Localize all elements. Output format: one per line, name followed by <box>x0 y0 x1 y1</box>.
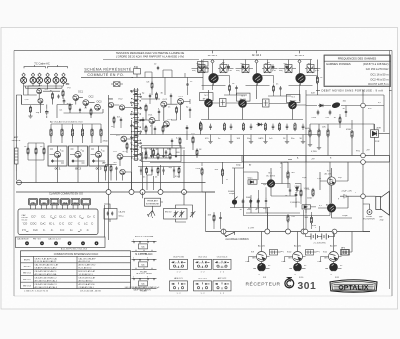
svg-text:5n: 5n <box>143 177 145 179</box>
resistor stage2-3 <box>273 84 275 92</box>
resistor supply column 2 <box>61 128 63 138</box>
svg-text:AT.GO.1.AST.OS.2: AT.GO.1.AST.OS.2 <box>79 264 97 267</box>
resistor AVC 150 <box>309 128 311 137</box>
svg-text:25µF: 25µF <box>302 177 307 179</box>
ground front-end <box>28 114 32 118</box>
transistor OC2 <box>75 151 81 157</box>
transistor BF 195 (stage 1) <box>209 73 219 83</box>
wire: extra fe links <box>28 86 103 118</box>
ground under IF row at x=287 <box>285 140 289 144</box>
svg-text:G.O: G.O <box>123 151 127 153</box>
svg-text:[5K]: [5K] <box>280 251 284 253</box>
capacitor left-bus 1 <box>115 166 117 171</box>
transistor left-bus <box>120 169 125 174</box>
resistor left-bus 1 <box>105 165 107 173</box>
capacitor stage2-3 <box>279 86 281 91</box>
junction battery left <box>303 229 308 234</box>
wire: stage 1 tick to frame <box>212 51 214 54</box>
ground AVC 2 <box>317 146 321 150</box>
resistor osc mod 1 <box>145 153 147 160</box>
svg-text:CC´: CC´ <box>68 221 73 225</box>
resistor supply column 4 <box>81 128 83 138</box>
transformer box for N 11 <box>342 250 350 256</box>
keyboard contact dot 3 <box>54 241 58 245</box>
wire: inter-stage output links <box>270 232 353 253</box>
earphone jack <box>367 210 372 215</box>
junction on bus E at x=267.3 <box>265 229 270 234</box>
extra marks in OC3 box <box>91 149 105 163</box>
resistor front-end 3 <box>69 103 71 111</box>
resistor AVC 10k <box>318 128 320 137</box>
svg-text:CB.2.AT.C.AT.OS.AV.C.2: CB.2.AT.C.AT.OS.AV.C.2 <box>35 277 58 280</box>
svg-text:OC3 57 à 87,5 m: OC3 57 à 87,5 m <box>368 82 389 86</box>
transistor N3 OC169 <box>239 100 247 108</box>
switch contact 5 <box>131 114 135 115</box>
switch contact 11 <box>131 148 135 149</box>
svg-text:OC1: OC1 <box>179 96 184 98</box>
box CV 470 <box>104 209 117 220</box>
band switch strip side dots <box>131 91 141 161</box>
resistor pre-bus 3 <box>43 147 45 156</box>
resistor front-end 2 <box>52 92 54 100</box>
transistor center OC1 <box>149 118 155 124</box>
trimmer capacitor diamond 4 <box>46 73 49 77</box>
ground under IF row at x=303 <box>301 140 305 144</box>
wire: supply drop 5 <box>91 124 93 129</box>
transistor center OC2 <box>119 105 124 110</box>
aju trimmer near title <box>134 67 141 78</box>
transistor center FO/GO <box>117 154 123 160</box>
svg-text:C.C: C.C <box>60 229 65 232</box>
wire: stage 2 tick to frame <box>256 51 258 54</box>
resistor c-extra 3 <box>145 125 147 133</box>
capacitor front-end 2 <box>57 94 59 98</box>
capacitor CV b <box>111 211 113 215</box>
wire: osc mod top rail <box>144 148 179 154</box>
svg-text:SAUF INDICATION: SAUF INDICATION <box>133 289 151 292</box>
resistor c-extra 6 <box>113 116 115 124</box>
wire: battery area <box>312 212 320 232</box>
svg-text:470K: 470K <box>196 168 201 170</box>
electrolytic capacitor 2.5uF output <box>340 194 352 198</box>
svg-text:P.O: P.O <box>116 135 120 137</box>
resistor fo-go 2 <box>157 167 159 175</box>
capacitor under title wire <box>186 82 188 87</box>
svg-text:R.1.3.10. AV.FO.CAD 12: R.1.3.10. AV.FO.CAD 12 <box>35 260 58 263</box>
wire: key 6 drop <box>104 205 106 237</box>
svg-text:GRI: GRI <box>252 258 256 260</box>
wire: bottom extra links <box>214 210 304 234</box>
ferrite rod coil <box>15 145 18 172</box>
wire: bus line A (chassis) <box>16 182 206 184</box>
wire: antenna to bus <box>15 143 17 181</box>
svg-text:301: 301 <box>298 281 317 292</box>
pinout diagram M.F.3 <box>132 279 157 289</box>
svg-text:10K: 10K <box>237 138 241 140</box>
svg-text:AOR: AOR <box>377 127 382 130</box>
svg-text:FM): FM) <box>236 70 240 72</box>
svg-text:EN OC3: EN OC3 <box>23 286 31 288</box>
wire: y162.5 link to right <box>150 162 242 164</box>
wire: bus drop right of keyboard <box>108 195 110 241</box>
svg-text:·2·G·O·: ·2·G·O· <box>199 267 206 269</box>
wire: jack link <box>363 204 370 210</box>
keyboard contact dot 1 <box>25 241 29 245</box>
band switch strip extra contacts <box>133 90 139 161</box>
svg-text:OA79: OA79 <box>258 137 264 140</box>
junction on bus E at x=223.5 <box>221 229 226 234</box>
diode AM detector <box>318 104 325 107</box>
wire: det extra <box>306 106 352 163</box>
svg-text:50n: 50n <box>247 138 250 140</box>
wire: bus line E (battery +) <box>206 231 371 233</box>
wire: AF path verticals <box>232 135 258 199</box>
svg-text:BO2.OC1.AT.O.AT: BO2.OC1.AT.O.AT <box>79 270 96 273</box>
transistor AF 114 (stage 2) <box>253 73 263 83</box>
wire: to speaker <box>352 196 376 210</box>
pinout box 6 inner x-marks <box>216 283 226 285</box>
svg-text:ℓC·L: ℓC·L <box>49 221 55 225</box>
svg-text:GRI: GRI <box>324 258 328 260</box>
svg-text:C‿C: C‿C <box>50 215 57 219</box>
transistor OC3 <box>95 151 101 157</box>
wire: prebus links <box>28 143 44 183</box>
diode box AOR/POR <box>371 130 379 138</box>
svg-text:47KΩ: 47KΩ <box>346 128 352 131</box>
capacitor af row 3 <box>265 198 267 203</box>
svg-text:AT.OC3.A.AT.3.56: AT.OC3.A.AT.3.56 <box>79 283 96 286</box>
svg-text:OC2 46 à 53 m: OC2 46 à 53 m <box>370 78 389 82</box>
wire: title wire drops <box>152 78 188 96</box>
pinout box 4 inner x-marks <box>173 283 183 285</box>
commutation table outer box <box>21 251 131 289</box>
switch contact 8 <box>138 131 142 132</box>
resistor driver bias <box>312 188 314 197</box>
svg-text:AT.C.AV.OC3.R.AT.CAL.3: AT.C.AV.OC3.R.AT.CAL.3 <box>35 286 58 289</box>
trimmer capacitor diamond 6 <box>62 73 65 77</box>
trimmer box with X under title <box>111 82 123 87</box>
resistor AVC 47k <box>327 128 329 137</box>
label box CB7 upper <box>198 62 209 67</box>
svg-text:CvC: CvC <box>40 221 46 225</box>
IF transformer right of stage 1 <box>220 65 227 73</box>
wire: OC 2 emitter to bus <box>77 166 79 183</box>
svg-text:AF 114 2: AF 114 2 <box>252 54 262 57</box>
resistor c-extra 1 <box>156 92 158 100</box>
variable capacitor outside EN GO <box>190 211 195 218</box>
rule under notes <box>103 58 199 60</box>
svg-text:ECOUTEUR: ECOUTEUR <box>363 219 375 221</box>
svg-text:OC3: OC3 <box>97 101 103 104</box>
svg-text:FO: FO <box>68 88 71 90</box>
wire: coil 3 stub <box>39 77 41 86</box>
svg-text:CL.C: CL.C <box>59 215 66 219</box>
svg-text:OC1 OC1.3: OC1 OC1.3 <box>217 257 228 259</box>
capacitor fo-go 2 <box>151 168 153 172</box>
resistor c-extra 4 <box>162 125 164 133</box>
svg-text:FM · GO: FM · GO <box>33 239 41 241</box>
capacitor in OC 1 <box>51 159 53 162</box>
svg-text:CC°: CC° <box>31 215 36 219</box>
junction: speaker feed <box>361 194 366 199</box>
svg-text:·C: ·C <box>77 221 80 225</box>
wire: N 11 leads <box>325 232 342 265</box>
wire: stage3 riser <box>312 60 318 96</box>
tuning capacitor section 6 <box>61 77 67 83</box>
svg-text:AC 132: AC 132 <box>325 172 333 175</box>
keyboard contact dot 2 <box>40 241 44 245</box>
wire: OC 1 emitter to bus <box>57 166 59 183</box>
svg-text:5n: 5n <box>343 108 345 110</box>
keyboard contact dot 5 <box>81 241 85 245</box>
svg-text:CL°C: CL°C <box>69 215 76 219</box>
svg-text:C·: C· <box>43 229 46 232</box>
svg-text:POR: POR <box>375 141 380 143</box>
frame right double border <box>390 51 393 297</box>
resistor c-extra 2 <box>176 106 178 114</box>
wire: supply drop 1 <box>50 124 52 129</box>
wire: front-end links <box>24 86 63 99</box>
IF transformer left of stage 3 <box>285 65 292 73</box>
switch contact 4 <box>138 108 142 109</box>
capacitor c-extra 6 <box>120 118 122 123</box>
capacitor det 1 <box>317 110 320 116</box>
wire: stage 3 connections <box>279 60 321 86</box>
pin dots M.F.2 <box>133 259 154 260</box>
svg-text:·2·G·O·: ·2·G·O· <box>219 267 226 269</box>
svg-text:(PM: (PM <box>315 70 319 72</box>
junction on bus B at x=131.5 <box>129 190 134 195</box>
frequency table header rule <box>324 60 391 62</box>
resistor N5 load <box>287 170 289 179</box>
svg-text:OC1 OC2: OC1 OC2 <box>198 278 208 280</box>
AF module box outline <box>244 156 331 216</box>
capacitor row-under-IF 12 <box>302 124 305 130</box>
wire: OC 3 emitter to bus <box>98 166 100 183</box>
junction on bus B at x=184 <box>182 190 187 195</box>
transistor N7 AC132 driver <box>327 177 335 185</box>
IF transformer MF1 <box>220 99 227 107</box>
stage box OC 3 <box>89 146 108 166</box>
svg-text:GO 150 à 270 KHz: GO 150 à 270 KHz <box>366 67 389 71</box>
svg-text:5n: 5n <box>240 209 242 211</box>
capacitor N5 out <box>295 192 298 198</box>
svg-text:OC1 OC1: OC1 OC1 <box>198 257 208 259</box>
wire: +12V tap <box>281 160 292 164</box>
svg-text:2 x HT: 2 x HT <box>248 228 255 230</box>
pin dots M.F.1 <box>133 241 154 242</box>
junction: detector output <box>361 103 366 108</box>
resistor supply column 3 <box>71 128 73 138</box>
wire: af out links <box>282 184 316 214</box>
svg-text:OC2: OC2 <box>163 99 168 101</box>
svg-text:A.6.CR.O.56: A.6.CR.O.56 <box>79 260 91 263</box>
wire: coil 5 stub <box>55 77 57 86</box>
svg-text:AC 125: AC 125 <box>258 244 266 247</box>
svg-text:F.O: F.O <box>114 151 118 153</box>
diode thermistor <box>295 186 298 193</box>
svg-text:AT.C.AV.OC1.AT.FO.CAL: AT.C.AV.OC1.AT.FO.CAL <box>35 273 58 276</box>
transistor OC1 <box>54 151 60 157</box>
svg-text:EN OC1: EN OC1 <box>23 273 31 275</box>
frequency table box <box>324 55 391 87</box>
resistor pre-bus 2 <box>35 147 37 156</box>
wire: af input link <box>202 163 215 193</box>
transistor mixer (FO) <box>37 89 42 94</box>
commutation table header rule <box>21 255 131 257</box>
svg-text:EN OC2: EN OC2 <box>23 279 31 281</box>
ground under IF row at x=251 <box>249 140 253 144</box>
capacitor row-under-IF 6 <box>250 124 253 130</box>
underline of schema title line 2 <box>81 76 133 78</box>
capacitor center 1 <box>142 117 145 123</box>
switch contact 2 <box>138 96 142 97</box>
svg-text:TC Cadre AC: TC Cadre AC <box>34 62 50 66</box>
svg-text:FO: FO <box>103 162 106 164</box>
svg-text:EN FO: EN FO <box>24 260 31 262</box>
capacitor c-extra 8 <box>165 150 167 155</box>
trimmer diamond stage 1 <box>211 60 214 64</box>
tuning capacitor section 5 <box>53 77 59 83</box>
svg-text:150Ω: 150Ω <box>305 127 310 130</box>
svg-text:DEP: DEP <box>282 261 287 263</box>
svg-text:‿C: ‿C <box>77 229 82 232</box>
potentiometer (volume) dark knob <box>232 199 237 204</box>
rules around debit note <box>316 90 392 92</box>
transformer box for N 9 <box>270 250 278 256</box>
wire: N8 links <box>318 196 352 218</box>
switch contact 10 <box>138 143 142 144</box>
svg-text:LES CONDENSATEURS SONT EN pF: LES CONDENSATEURS SONT EN pF <box>125 286 160 289</box>
transformer box for N 10 <box>306 250 314 256</box>
transistor center OC2-b <box>161 101 167 107</box>
resistor front-end 4 <box>90 108 92 116</box>
transistor N 11 case (bottom view, dark) <box>329 263 338 272</box>
svg-text:·C·: ·C· <box>50 229 54 232</box>
frame left border <box>13 51 15 297</box>
svg-text:AC 187: AC 187 <box>330 244 338 247</box>
wire: long vertical x363 <box>362 90 364 194</box>
capacitor inter-stage at x=273 <box>272 64 275 70</box>
ground AVC 1 <box>308 143 312 147</box>
svg-text:[2K]: [2K] <box>316 251 320 253</box>
wire: bus C/D right drop <box>242 156 390 163</box>
capacitor row-under-IF 8 <box>272 124 275 130</box>
pinout box 4 <box>170 281 188 291</box>
capacitor stage1-2 <box>235 86 237 91</box>
wire: stage 3 tick to frame <box>299 51 301 54</box>
wire: OC 3 internals <box>91 146 106 166</box>
OPTALIX logo plate <box>330 280 377 292</box>
wire: second IF row links <box>209 90 307 120</box>
svg-text:COC·: COC· <box>30 221 37 225</box>
pinout box 5 inner x-marks <box>197 283 207 285</box>
resistor c-extra 5 <box>179 137 181 145</box>
svg-text:2,2K: 2,2K <box>25 99 30 101</box>
ground under IF row at x=231 <box>229 140 233 144</box>
transistor center PO <box>121 136 127 142</box>
wire: gang bottom bus <box>24 86 64 88</box>
svg-text:FM): FM) <box>192 70 196 72</box>
svg-text:PO: PO <box>66 83 70 86</box>
wire: coil 4 stub <box>47 77 49 86</box>
transistor N8 output <box>327 204 335 212</box>
wire: front-end lower bus <box>22 95 58 118</box>
resistor c-extra 8 <box>153 148 155 156</box>
svg-text:5n: 5n <box>248 208 250 210</box>
wire: detector row <box>306 106 384 154</box>
label box N2 <box>200 93 214 101</box>
wire: supply row bus <box>51 124 101 143</box>
wire: battery risers <box>306 210 371 237</box>
capacitor row-under-IF 10 <box>286 124 289 130</box>
capacitor in OC 2 <box>72 159 74 162</box>
svg-text:30n: 30n <box>291 138 294 140</box>
keyboard contact dot 6 <box>95 241 99 245</box>
svg-text:2,5µF +475: 2,5µF +475 <box>342 190 353 192</box>
svg-text:X.O: X.O <box>45 89 49 91</box>
capacitor AF 5n <box>242 199 245 205</box>
svg-text:CC: CC <box>141 265 145 267</box>
resistor row-under-IF 11 <box>294 123 296 132</box>
box EN GO switch group <box>164 209 188 220</box>
keyboard contact dot 4 <box>68 241 72 245</box>
svg-text:OC2: OC2 <box>118 99 123 101</box>
wire: left-bus cluster links <box>106 165 132 190</box>
wire: component row top rail <box>201 119 303 121</box>
transistor center OC3-b <box>163 121 169 127</box>
wire: supply drop 2 <box>61 124 63 129</box>
transistor N 9 case (bottom view, dark) <box>257 263 266 272</box>
resistor pre-bus 1 <box>27 147 29 156</box>
diode detector OA79 <box>256 123 263 126</box>
svg-text:100µF: 100µF <box>342 215 348 217</box>
transistor OC1 (front-end) <box>73 95 79 101</box>
resistor bias bottom 1 <box>213 214 215 223</box>
svg-text:ALI OC1 ALI OC2 OC3 A OC O: ALI OC1 ALI OC2 OC3 A OC OC3 <box>50 120 83 123</box>
trimmer diamond stage 2 <box>255 60 258 64</box>
svg-text:47n: 47n <box>326 117 329 119</box>
svg-text:OC2 FO.GO: OC2 FO.GO <box>173 257 185 259</box>
svg-text:M.F.1 PT ROUGE: M.F.1 PT ROUGE <box>135 236 154 238</box>
svg-text:2n: 2n <box>285 195 287 197</box>
wire: stage emitter resistor <box>261 76 274 84</box>
wire: OC 1 internals <box>50 146 65 166</box>
svg-text:500 µ: 500 µ <box>119 216 125 218</box>
push key 4 (OC2) <box>61 198 70 209</box>
capacitor fo-go 1 <box>140 168 142 172</box>
junction: antenna node <box>17 180 22 185</box>
resistor 47k right <box>351 129 353 138</box>
wire: bus E left riser <box>205 192 207 232</box>
wire: detector rail y95 <box>306 90 384 232</box>
tuning capacitor section 3 <box>37 77 43 83</box>
svg-text:CC.: CC. <box>41 215 46 219</box>
wire: stage 2 connections <box>236 60 278 86</box>
capacitor in OC 3 <box>92 159 94 162</box>
svg-text:CB.3.AT.C.AT.OS.AV.C.3: CB.3.AT.C.AT.OS.AV.C.3 <box>35 283 58 286</box>
wire: ground stub x=210.5 <box>210 135 212 140</box>
svg-text:GO: GO <box>114 162 118 164</box>
wire: front-end chain <box>57 98 95 108</box>
resistor fo-go 1 <box>146 167 148 175</box>
svg-text:BF 195 3: BF 195 3 <box>295 55 305 57</box>
wire: OC 2 internals <box>70 146 85 166</box>
svg-text:COMMUTÉ EN FO.: COMMUTÉ EN FO. <box>87 72 124 77</box>
capacitor fo-go 3 <box>162 168 164 172</box>
capacitor c-extra 7 <box>145 150 147 155</box>
wire: center extra mesh <box>114 99 197 159</box>
